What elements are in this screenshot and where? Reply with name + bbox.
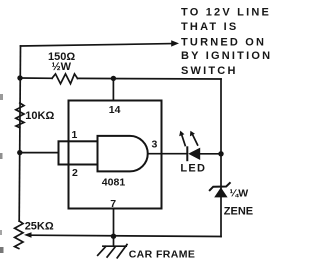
ground chassis hatch 3 bbox=[117, 245, 127, 258]
svg-text:CAR FRAME: CAR FRAME bbox=[129, 249, 196, 261]
LED light arrow 1 bbox=[182, 135, 186, 146]
AND gate U1a body bbox=[98, 136, 148, 172]
node junction pin 7 / bottom rail bbox=[111, 234, 116, 239]
wire 150-ohm branch bbox=[20, 77, 52, 79]
wire left rail bbox=[19, 46, 20, 221]
svg-text:TURNED ON: TURNED ON bbox=[181, 37, 266, 49]
wire LED to right rail bbox=[200, 153, 221, 155]
node junction input bbox=[17, 150, 22, 155]
arrow to 12V line bbox=[171, 40, 179, 46]
node junction pin14 drop bbox=[111, 76, 116, 81]
IC U1 4081 box bbox=[69, 101, 162, 209]
svg-text:3: 3 bbox=[152, 139, 158, 151]
ground chassis hatch 1 bbox=[98, 246, 106, 255]
svg-text:25KΩ: 25KΩ bbox=[25, 221, 54, 233]
ground chassis bar bbox=[103, 245, 126, 247]
pot wiper arrow bbox=[24, 232, 32, 238]
svg-text:10KΩ: 10KΩ bbox=[25, 110, 54, 122]
LED light arrow 2 bbox=[193, 135, 198, 146]
scan artifact marks bbox=[0, 94, 3, 100]
svg-text:LED: LED bbox=[180, 162, 206, 174]
LED D1 cathode bar bbox=[186, 147, 188, 160]
svg-text:ZENE: ZENE bbox=[224, 206, 253, 218]
svg-text:½W: ½W bbox=[52, 61, 72, 73]
svg-text:TO 12V LINE: TO 12V LINE bbox=[181, 6, 271, 18]
wire bottom rail bbox=[30, 235, 221, 236]
svg-text:THAT IS: THAT IS bbox=[181, 21, 238, 33]
resistor R 150 ohm 1/2W bbox=[52, 74, 78, 84]
svg-text:SWITCH: SWITCH bbox=[181, 65, 238, 77]
svg-text:2: 2 bbox=[72, 167, 78, 179]
svg-text:BY IGNITION: BY IGNITION bbox=[181, 50, 272, 62]
svg-text:1: 1 bbox=[72, 129, 78, 141]
wire top rail to 12V bbox=[21, 44, 172, 46]
potentiometer R 25K bbox=[15, 221, 23, 249]
node junction LED / rail bbox=[218, 151, 223, 156]
svg-text:4081: 4081 bbox=[102, 177, 126, 189]
wire gate input from left rail bbox=[20, 152, 59, 154]
wire pin 14 bbox=[112, 78, 114, 100]
wire pin 3 output bbox=[148, 153, 187, 155]
wire pin 7 bbox=[113, 209, 115, 237]
node junction left rail / 150-ohm bbox=[17, 75, 22, 80]
svg-text:¼W: ¼W bbox=[230, 188, 249, 200]
ground chassis CAR FRAME stub bbox=[113, 236, 115, 246]
LED D1 triangle bbox=[188, 148, 200, 160]
wire resistor to right rail bbox=[78, 77, 222, 80]
node label: TO 12V LINE THAT IS TURNED ON BY IGNITION SWITCH bbox=[181, 6, 272, 77]
wire right rail bbox=[220, 79, 222, 237]
zener diode D2 triangle bbox=[214, 187, 227, 197]
zener diode D2 bar bbox=[210, 183, 230, 190]
ground chassis hatch 2 bbox=[107, 247, 115, 257]
gate input tie box pins 1-2 bbox=[59, 141, 98, 164]
resistor R 10K bbox=[16, 103, 24, 128]
svg-text:14: 14 bbox=[109, 104, 121, 116]
